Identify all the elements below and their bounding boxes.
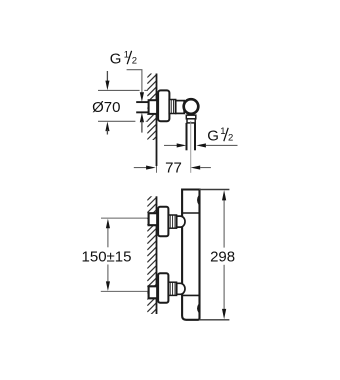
thermostat body outline: [182, 190, 199, 320]
svg-text:77: 77: [165, 160, 182, 177]
supply pipe stub behind wall: [136, 102, 150, 112]
svg-text:G: G: [207, 127, 219, 144]
union cylinder with nut ridges (upper): [169, 215, 177, 228]
wall face line (top view): [156, 74, 158, 173]
body edge arc (upper): [198, 196, 199, 205]
connection nut behind wall (upper): [149, 213, 158, 225]
150 dimension extension line (lower): [101, 290, 150, 292]
connection nut behind wall (lower): [149, 286, 158, 298]
Ø70 dimension arrows: [105, 71, 109, 135]
union dome (lower): [177, 283, 185, 294]
svg-text:1: 1: [124, 50, 129, 61]
wall hatching (front view): [147, 190, 157, 318]
escutcheon rosette (lower): [158, 273, 168, 303]
dimension 77: [134, 160, 211, 177]
outlet pipe centerline: [190, 121, 192, 173]
wall face line (front view): [156, 196, 158, 314]
outlet pipe (top view): [187, 123, 196, 150]
dimension 150±15: [82, 219, 132, 291]
dimension 298: [210, 190, 235, 319]
leader arrows for G 1/2 (right): [164, 143, 238, 147]
escutcheon rosette (upper): [158, 207, 168, 237]
svg-text:150±15: 150±15: [82, 248, 132, 265]
svg-text:1: 1: [220, 126, 225, 137]
union cylinder with nut ridges (lower): [169, 282, 177, 295]
valve body (top view): [176, 101, 185, 114]
298 dimension extension line (bottom): [199, 319, 229, 321]
label G 1/2 (right): [207, 126, 233, 144]
body seam (lower): [182, 294, 199, 296]
union nut (top view): [169, 100, 176, 114]
body seam (upper): [182, 212, 199, 214]
svg-text:G: G: [110, 51, 122, 68]
collar rings under ball: [186, 115, 196, 123]
svg-text:2: 2: [228, 133, 233, 144]
298 dimension extension line (top): [199, 189, 229, 191]
Ø70 dimension extension lines: [98, 90, 148, 121]
svg-text:Ø70: Ø70: [92, 99, 120, 116]
svg-text:2: 2: [132, 56, 137, 67]
leader for G 1/2 (top): [127, 70, 144, 133]
connection nut behind wall (top view): [149, 100, 158, 114]
wall hatching (top view): [147, 67, 157, 145]
value label Ø70: [92, 99, 120, 116]
svg-text:298: 298: [210, 248, 235, 265]
label G 1/2 (top): [110, 50, 137, 68]
ball elbow: [184, 99, 199, 114]
150 dimension extension line (upper): [101, 217, 149, 219]
escutcheon rosette (top view): [158, 90, 169, 121]
union dome (upper): [177, 216, 185, 227]
body edge arc (lower): [198, 304, 199, 312]
